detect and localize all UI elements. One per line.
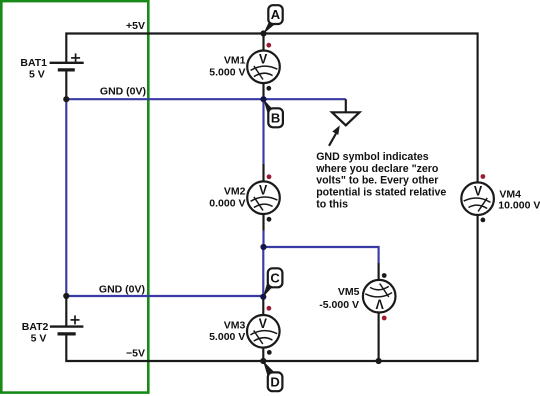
selection box (green)	[1, 1, 148, 393]
junction BAT2 / GND	[63, 293, 69, 299]
svg-text:B: B	[271, 110, 280, 125]
svg-text:BAT1: BAT1	[20, 57, 47, 69]
voltmeter VM3	[247, 315, 280, 348]
svg-text:GND (0V): GND (0V)	[99, 283, 145, 295]
svg-text:BAT2: BAT2	[22, 321, 49, 333]
svg-text:to this: to this	[316, 199, 348, 211]
wire node B to VM2 top (blue)	[262, 99, 264, 164]
svg-text:volts" to be. Every other: volts" to be. Every other	[316, 175, 438, 187]
wire -5V net (BAT2 - down, across bottom, up to VM4 bottom)	[66, 215, 477, 361]
wire GND net lower horizontal (blue)	[66, 295, 263, 297]
wire GND net left vertical (blue)	[65, 99, 67, 296]
svg-text:VM1: VM1	[224, 55, 246, 67]
wire VM5 bottom pin	[378, 313, 380, 361]
svg-text:VM2: VM2	[224, 186, 246, 198]
svg-text:+5V: +5V	[126, 20, 145, 32]
annotation text	[315, 151, 446, 211]
junction VM5 / -5V	[376, 358, 382, 364]
junction BAT1 / GND	[63, 96, 69, 102]
wire VM2 bottom to tee (blue)	[262, 231, 264, 248]
battery BAT2	[50, 315, 84, 334]
wire GND net upper horizontal (blue)	[66, 98, 346, 100]
svg-text:0.000 V: 0.000 V	[209, 197, 245, 209]
VM2 positive terminal dot	[267, 174, 272, 179]
junction node D	[260, 358, 266, 364]
VM4 positive terminal dot	[481, 174, 486, 179]
wire VM1 top pin	[262, 34, 264, 51]
svg-text:10.000 V: 10.000 V	[498, 200, 540, 212]
svg-text:potential is stated relative: potential is stated relative	[316, 187, 446, 199]
VM3 positive terminal dot	[267, 306, 272, 311]
node C	[263, 268, 282, 297]
junction VM2 bottom / VM5 tee	[260, 244, 266, 250]
VM1 positive terminal dot	[266, 43, 271, 48]
svg-text:-5.000 V: -5.000 V	[319, 299, 359, 311]
VM1 negative terminal dot	[266, 86, 271, 91]
wire BAT2 positive lead	[65, 296, 67, 327]
junction at node A / VM1 top	[260, 30, 266, 36]
node D	[263, 361, 282, 391]
annotation arrow to ground symbol	[329, 125, 340, 145]
voltmeter VM1	[247, 51, 280, 84]
VM5 positive terminal dot (bottom)	[382, 316, 387, 321]
svg-text:−5V: −5V	[126, 348, 145, 360]
svg-text:GND symbol indicates: GND symbol indicates	[316, 151, 429, 163]
svg-text:C: C	[270, 270, 280, 285]
svg-text:where you declare "zero: where you declare "zero	[315, 163, 439, 175]
wire VM2 bottom pin	[262, 214, 264, 231]
VM2 negative terminal dot	[267, 217, 272, 222]
node A	[263, 5, 282, 34]
battery BAT1	[50, 53, 84, 70]
junction node C	[260, 294, 266, 300]
wire BAT1 negative lead	[65, 70, 67, 99]
wire node C junction up to tee (blue)	[262, 247, 264, 297]
wire VM5 top pin	[378, 263, 380, 280]
svg-text:VM3: VM3	[224, 319, 246, 331]
svg-text:GND (0V): GND (0V)	[100, 86, 146, 98]
svg-text:5.000 V: 5.000 V	[209, 331, 245, 343]
wire +5V net (BAT1 + up, across top, down right side to VM4)	[66, 34, 477, 183]
junction node B	[260, 96, 266, 102]
node B	[263, 99, 283, 127]
ground symbol	[332, 99, 360, 125]
wire tee to VM5 (blue)	[264, 247, 379, 263]
VM5 negative terminal dot (top)	[382, 273, 387, 278]
svg-text:5 V: 5 V	[31, 333, 47, 345]
svg-text:5 V: 5 V	[29, 68, 45, 80]
svg-text:VM5: VM5	[338, 286, 360, 298]
wire VM2 top pin	[262, 164, 264, 182]
wire VM3 top pin	[262, 297, 264, 315]
svg-text:D: D	[270, 374, 279, 389]
svg-text:VM4: VM4	[499, 188, 521, 200]
wire VM1 bottom pin	[262, 83, 264, 99]
voltmeter VM2	[247, 181, 280, 214]
wire VM3 bottom pin	[262, 348, 264, 362]
svg-text:A: A	[271, 7, 281, 22]
svg-text:5.000 V: 5.000 V	[209, 66, 245, 78]
voltmeter VM4 (mirrored)	[461, 182, 494, 215]
VM4 negative terminal dot	[481, 218, 486, 223]
voltmeter VM5 (rotated 180)	[363, 280, 396, 313]
VM3 negative terminal dot	[267, 350, 272, 355]
